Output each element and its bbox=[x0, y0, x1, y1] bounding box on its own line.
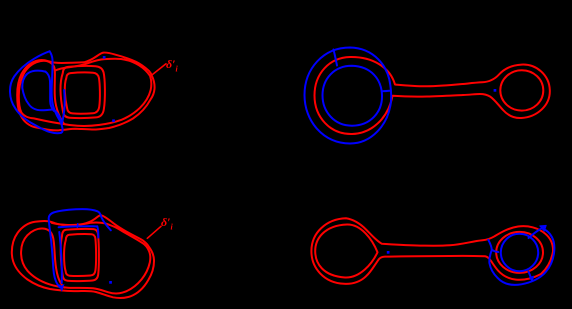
blue inner C TL bbox=[22, 71, 61, 124]
blue outer circle TR bbox=[305, 48, 392, 144]
blue tick on inner line BL bbox=[76, 224, 79, 228]
blue bottom arrow link BR bbox=[529, 272, 533, 281]
blue rect inner left BL bbox=[59, 232, 62, 283]
blue outer arc BR bbox=[488, 228, 554, 285]
red inner egg BR left bulb bbox=[315, 224, 377, 277]
red inner loop TL (big circuit with hairpin) bbox=[19, 59, 152, 126]
label delta'_i top bbox=[166, 57, 178, 73]
blue channel right line TL bbox=[62, 90, 65, 124]
blue connector right TR bbox=[382, 90, 391, 93]
blue arrowhead BL bbox=[59, 285, 64, 291]
red outer blob TL bbox=[17, 53, 154, 131]
red outer blob BL bbox=[12, 215, 154, 298]
red label leader BL bbox=[147, 226, 161, 238]
label delta'_i bottom bbox=[161, 215, 173, 231]
blue peak right branch TL bbox=[50, 51, 62, 124]
blue arrowhead top BR bbox=[540, 225, 546, 231]
blue inner circle TR bbox=[323, 66, 383, 126]
red rectangle outer BL bbox=[61, 229, 99, 281]
red dumbbell outline TR bbox=[315, 57, 550, 134]
red dumbbell outline BR bbox=[311, 218, 553, 284]
blue inner circle BR bbox=[501, 234, 538, 271]
blue dot TL bottom bbox=[112, 119, 115, 122]
blue rect outer BL bbox=[49, 209, 111, 287]
red inner loop BL (big circuit with hairpin) bbox=[21, 222, 150, 293]
red inner circle BR right bulb bbox=[496, 232, 543, 273]
blue dot BR neck bbox=[387, 251, 390, 254]
red inner circle TR right bulb bbox=[500, 70, 543, 110]
red rectangle inner TL bbox=[65, 72, 100, 113]
blue outer arc TL bbox=[10, 51, 63, 133]
blue dot BL bbox=[109, 281, 112, 284]
red label leader TL bbox=[153, 64, 166, 75]
blue rect inner top BL bbox=[59, 226, 99, 237]
blue diagonal link BR bbox=[529, 229, 541, 238]
red rectangle outer TL bbox=[60, 66, 104, 118]
blue connector top-left TR bbox=[334, 50, 338, 66]
blue junction link BR bbox=[492, 250, 499, 252]
red rectangle inner BL bbox=[64, 234, 96, 276]
blue inner C right side TL bbox=[45, 72, 53, 111]
blue dot TR neck bbox=[494, 89, 497, 92]
blue dot TL top bbox=[103, 56, 106, 59]
